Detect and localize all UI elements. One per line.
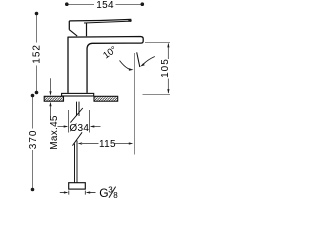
dim 154 line [65,0,144,11]
dim O34 extension ticks [69,110,90,133]
svg-text:Ø34: Ø34 [69,123,89,134]
outlet axis 10deg tilted line [137,52,140,67]
dim O34 right arrow [90,125,101,127]
supply stud pipes [77,102,80,116]
svg-text:8: 8 [113,191,118,200]
dim O34 left arrow [58,125,69,127]
faucet handle lever [69,19,131,36]
svg-text:105: 105 [160,58,171,78]
10deg right leader arrow [140,57,155,67]
handle chamfer [69,30,77,36]
connector dimension left arrow [60,191,69,193]
connector width dimension ticks [69,191,86,195]
svg-text:152: 152 [32,44,43,64]
handle front stem [86,23,88,36]
dim 105 line [160,43,171,94]
dim 152 line [32,12,43,95]
connector dimension right arrow [86,191,96,193]
countertop hatched left [44,96,63,101]
dim 115 [78,139,134,150]
dim 105 top extension line [145,42,170,44]
dim 370 line [28,94,39,192]
hose lower bend [72,132,82,145]
svg-text:115: 115 [99,139,116,150]
base flange [62,93,94,96]
hose upper bend [70,108,82,123]
hose vertical pipes [75,141,78,183]
Max.45 upper arrow [49,78,51,96]
svg-text:370: 370 [28,130,39,150]
countertop hatched right [94,96,118,101]
svg-text:Max.45: Max.45 [49,115,60,150]
faucet body and spout [68,37,143,93]
svg-text:154: 154 [96,0,114,11]
G3/8 connector nut [69,183,86,189]
Max.45 lower arrow [49,102,51,117]
label G 3/8 [99,186,118,201]
outlet centerline vertical [134,53,136,155]
10deg left leader arrow [120,61,134,71]
dim 105 bottom extension line [143,94,171,96]
